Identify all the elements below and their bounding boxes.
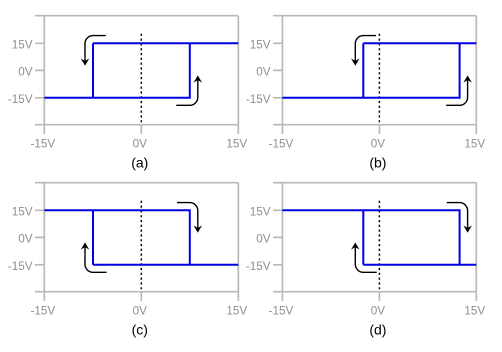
subplot (b) dotted 0V reference line <box>378 34 380 125</box>
svg-text:-15V: -15V <box>246 260 271 273</box>
subplot (c) x-axis tick 0V <box>140 292 142 301</box>
svg-text:15V: 15V <box>464 304 485 317</box>
subplot (d) falling-transition arrow <box>447 203 468 230</box>
subplot (d) frame <box>273 183 476 301</box>
svg-text:15V: 15V <box>226 137 247 150</box>
svg-text:(a): (a) <box>131 154 148 170</box>
svg-text:0V: 0V <box>133 304 148 317</box>
subplot (b) rising-transition arrow <box>446 79 468 105</box>
svg-text:-15V: -15V <box>269 137 294 150</box>
subplot (b) x-axis labels <box>269 137 486 150</box>
svg-text:15V: 15V <box>12 38 33 51</box>
svg-text:-15V: -15V <box>246 93 271 106</box>
svg-text:0V: 0V <box>18 232 33 245</box>
svg-text:0V: 0V <box>256 65 271 78</box>
subplot (a) frame <box>35 16 238 134</box>
svg-text:15V: 15V <box>226 304 247 317</box>
subplot (b) y-axis ticks 15V 0V -15V <box>273 43 282 98</box>
svg-text:0V: 0V <box>133 137 148 150</box>
svg-text:15V: 15V <box>250 205 271 218</box>
subplot (c) y-axis labels <box>8 205 33 272</box>
svg-text:-15V: -15V <box>30 304 55 317</box>
subplot (c) frame <box>35 183 238 301</box>
subplot (b) y-axis labels <box>246 38 271 106</box>
subplot (c) rising-transition arrow <box>85 246 107 272</box>
subplot (a) rising-transition arrow <box>176 79 198 105</box>
subplot (d) y-axis labels <box>246 205 271 272</box>
subplot (b) hysteresis curve <box>282 43 476 98</box>
subplot (c) dotted 0V reference line <box>140 201 142 292</box>
subplot (a) x-axis tick 0V <box>140 125 142 134</box>
subplot (a) y-axis ticks 15V 0V -15V <box>35 43 44 98</box>
svg-text:(c): (c) <box>132 321 148 337</box>
subplot (c) y-axis ticks 15V 0V -15V <box>35 210 44 264</box>
subplot (d) dotted 0V reference line <box>378 201 380 292</box>
subplot (d) y-axis ticks 15V 0V -15V <box>273 210 282 264</box>
subplot (a) dotted 0V reference line <box>140 34 142 125</box>
svg-text:0V: 0V <box>371 304 386 317</box>
svg-text:15V: 15V <box>250 38 271 51</box>
svg-text:-15V: -15V <box>8 93 33 106</box>
svg-text:0V: 0V <box>18 65 33 78</box>
subplot (a) hysteresis curve <box>44 43 238 98</box>
svg-text:0V: 0V <box>256 232 271 245</box>
subplot (c) falling-transition arrow <box>177 203 198 230</box>
subplot (b) x-axis tick 0V <box>378 125 380 134</box>
svg-text:(b): (b) <box>369 154 386 170</box>
svg-text:(d): (d) <box>369 321 386 337</box>
subplot (a) x-axis labels <box>30 137 247 150</box>
svg-text:-15V: -15V <box>269 304 294 317</box>
subplot (c) x-axis labels <box>30 304 247 317</box>
subplot (b) falling-transition arrow <box>355 36 376 63</box>
svg-text:0V: 0V <box>371 137 386 150</box>
subplot (d) x-axis tick 0V <box>378 292 380 301</box>
subplot (d) x-axis labels <box>269 304 486 317</box>
svg-text:-15V: -15V <box>30 137 55 150</box>
subplot (b) frame <box>273 16 476 134</box>
subplot (d) hysteresis curve <box>282 210 476 264</box>
svg-text:15V: 15V <box>464 137 485 150</box>
subplot (d) rising-transition arrow <box>355 246 377 272</box>
subplot (c) hysteresis curve <box>44 210 238 264</box>
svg-text:-15V: -15V <box>8 260 33 273</box>
subplot (a) falling-transition arrow <box>85 36 106 63</box>
subplot (a) y-axis labels <box>8 38 33 106</box>
svg-text:15V: 15V <box>12 205 33 218</box>
